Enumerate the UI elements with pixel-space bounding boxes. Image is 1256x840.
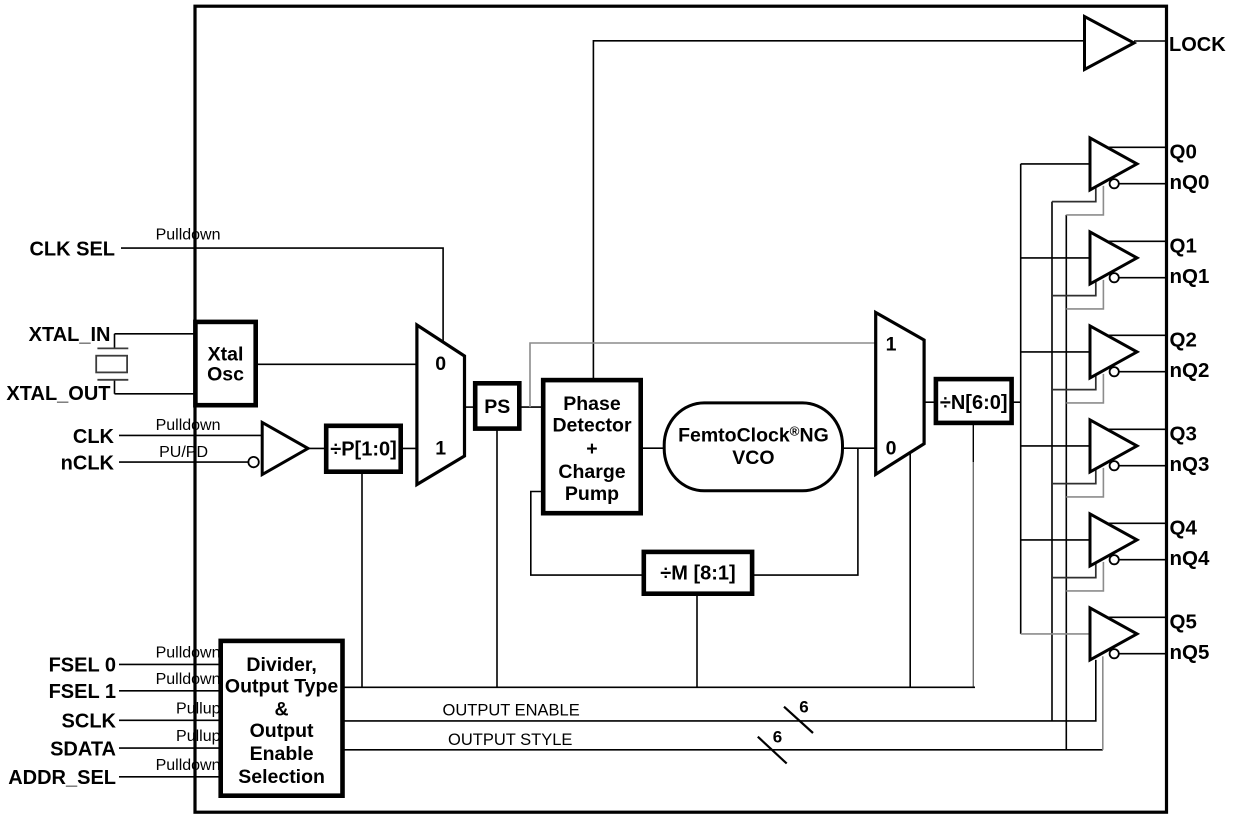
wire: phase detector output to VCO: [641, 447, 665, 449]
svg-text:Pullup: Pullup: [176, 728, 221, 745]
block: FemtoClock NG VCO: [664, 403, 842, 491]
wire (gray): PS output bypass to mux M2 input 1: [530, 343, 876, 407]
wire: divider P select from control bus: [361, 472, 363, 688]
svg-text:Charge: Charge: [558, 461, 625, 483]
wire: clock bus to buffer Q2 input: [1021, 351, 1090, 353]
svg-text:OUTPUT STYLE: OUTPUT STYLE: [448, 731, 572, 749]
svg-text:SDATA: SDATA: [50, 738, 116, 760]
svg-text:Pulldown: Pulldown: [156, 757, 221, 774]
wire: nQ5 output to pin: [1119, 653, 1165, 655]
svg-text:nQ0: nQ0: [1170, 171, 1210, 194]
inverting bubble on U1: [248, 457, 258, 467]
block: PS prescaler: [475, 383, 519, 428]
wire: output enable jog to buffer Q2: [1052, 376, 1096, 390]
wire: nQ4 output to pin: [1119, 559, 1165, 561]
svg-text:ADDR_SEL: ADDR_SEL: [8, 767, 116, 789]
wire: divider/type select bus from control block: [343, 686, 976, 688]
svg-text:Detector: Detector: [552, 415, 632, 437]
wire (gray): output style jog to buffer Q3 bubble: [1066, 468, 1103, 497]
output buffer Q1/nQ1: [1090, 232, 1137, 284]
svg-text:Q3: Q3: [1170, 422, 1197, 445]
wire: nCLK input to buffer U1 inverting in: [119, 461, 248, 463]
wire: Q1 output to pin: [1108, 240, 1165, 242]
wire (gray): output style jog to buffer Q1 bubble: [1066, 280, 1103, 309]
wire: XTAL_IN to Xtal Osc: [115, 333, 197, 335]
svg-text:Q0: Q0: [1170, 140, 1197, 163]
wire: CLK input to buffer U1: [119, 434, 262, 436]
wire: ADDR_SEL input to control block: [119, 776, 221, 778]
wire (gray): OUTPUT STYLE riser to nQ5 bubble: [1102, 656, 1104, 750]
inverting bubble nQ1: [1110, 273, 1119, 282]
LOCK output buffer U_LOCK: [1085, 17, 1135, 70]
svg-text:VCO: VCO: [732, 447, 774, 469]
main device boundary frame: [195, 6, 1167, 812]
output buffer Q2/nQ2: [1090, 326, 1137, 378]
inverting bubble nQ0: [1110, 179, 1119, 188]
mux M1 (reference select trapezoid): [417, 325, 465, 485]
wire: PS select from control bus: [496, 429, 498, 688]
block: divider N [6:0] output divider: [936, 379, 1012, 423]
svg-text:CLK SEL: CLK SEL: [29, 239, 115, 261]
wire: clock bus to buffer Q4 input: [1021, 539, 1090, 541]
svg-text:Divider,: Divider,: [246, 654, 316, 676]
svg-text:Pullup: Pullup: [176, 700, 221, 717]
wire: Q2 output to pin: [1108, 334, 1165, 336]
svg-text:XTAL_OUT: XTAL_OUT: [6, 383, 110, 405]
wire: XTAL_OUT to Xtal Osc: [115, 393, 197, 395]
crystal Y1 connection brackets: [114, 334, 116, 349]
svg-text:nQ4: nQ4: [1170, 547, 1210, 570]
crystal Y1 body: [96, 356, 127, 373]
inverting bubble nQ4: [1110, 555, 1119, 564]
svg-text:&: &: [275, 699, 289, 721]
svg-text:÷P[1:0]: ÷P[1:0]: [330, 438, 397, 460]
mux M2 (VCO bypass select trapezoid): [876, 313, 924, 475]
wire: LOCK buffer output to pin: [1134, 40, 1165, 42]
bus width slash (OUTPUT ENABLE): [784, 707, 813, 733]
output buffer Q3/nQ3: [1090, 420, 1137, 472]
svg-text:Pulldown: Pulldown: [156, 417, 221, 434]
crystal Y1 bottom plate: [97, 379, 128, 381]
wire: clock bus to buffer Q0 input: [1021, 163, 1090, 165]
svg-text:Enable: Enable: [250, 743, 314, 765]
svg-text:nCLK: nCLK: [61, 453, 115, 475]
block: Divider, Output Type & Output Enable Selection control: [221, 641, 343, 796]
wire: nQ3 output to pin: [1119, 465, 1165, 467]
wire: FSEL 1 input to control block: [119, 690, 221, 692]
wire: output enable bus vertical: [1051, 202, 1053, 721]
svg-text:SCLK: SCLK: [62, 711, 117, 733]
block: Xtal Osc oscillator: [195, 322, 255, 405]
wire: output clock bus vertical (divider N to buffers): [1020, 164, 1022, 634]
svg-text:nQ5: nQ5: [1170, 641, 1210, 664]
wire: divider N output to output bus: [1012, 401, 1021, 403]
svg-text:nQ1: nQ1: [1170, 265, 1210, 288]
wire: Q3 output to pin: [1108, 428, 1165, 430]
svg-text:Output Type: Output Type: [225, 676, 339, 698]
svg-text:1: 1: [886, 334, 897, 356]
svg-text:FemtoClock®NG: FemtoClock®NG: [678, 424, 829, 447]
inverting bubble nQ3: [1110, 461, 1119, 470]
input buffer U1 (differential clock): [262, 423, 308, 475]
svg-text:+: +: [586, 438, 597, 460]
wire: phase detector to LOCK buffer (net LOCK_INT): [593, 41, 1084, 380]
wire: divider N select from control bus: [972, 423, 974, 462]
svg-text:Output: Output: [250, 720, 314, 742]
inverting bubble nQ5: [1110, 649, 1119, 658]
svg-text:LOCK: LOCK: [1169, 34, 1226, 56]
svg-text:Q5: Q5: [1170, 610, 1197, 633]
svg-text:PS: PS: [484, 396, 510, 418]
svg-text:OUTPUT ENABLE: OUTPUT ENABLE: [443, 701, 580, 719]
wire: output enable jog to buffer Q0: [1052, 188, 1096, 202]
svg-text:Pulldown: Pulldown: [156, 227, 221, 244]
svg-text:Pulldown: Pulldown: [156, 671, 221, 688]
wire: clock bus to buffer Q1 input: [1021, 257, 1090, 259]
wire: Q5 output to pin: [1108, 616, 1165, 618]
wire: OUTPUT STYLE bus: [343, 749, 1103, 751]
svg-text:Pulldown: Pulldown: [156, 644, 221, 661]
wire (gray): output style jog to buffer Q2 bubble: [1066, 374, 1103, 403]
inverting bubble nQ2: [1110, 367, 1119, 376]
output buffer Q0/nQ0: [1090, 138, 1137, 190]
wire: mux M1 output to PS: [465, 406, 476, 408]
wire: nQ0 output to pin: [1119, 183, 1165, 185]
svg-text:Pump: Pump: [565, 483, 619, 505]
wire: mux M2 select from control bus: [909, 452, 911, 687]
svg-text:XTAL_IN: XTAL_IN: [29, 324, 111, 346]
block: divider M [8:1] feedback divider: [644, 552, 752, 594]
wire: mux M2 output to divider N: [924, 401, 936, 403]
svg-text:Q1: Q1: [1170, 234, 1197, 257]
svg-text:FSEL 1: FSEL 1: [49, 681, 116, 703]
wire: feedback from divider M to phase detector: [531, 492, 644, 576]
svg-text:nQ3: nQ3: [1170, 453, 1210, 476]
wire: Q4 output to pin: [1108, 522, 1165, 524]
wire: output style bus vertical: [1065, 215, 1067, 750]
wire: VCO output feedback tap down to divider M: [752, 448, 858, 575]
svg-text:÷N[6:0]: ÷N[6:0]: [940, 392, 1008, 414]
bus width slash (OUTPUT STYLE): [758, 737, 787, 764]
svg-text:FSEL 0: FSEL 0: [49, 655, 116, 677]
wire: OUTPUT ENABLE bus: [343, 660, 1096, 721]
svg-text:6: 6: [773, 728, 782, 747]
wire: output enable jog to buffer Q3: [1052, 470, 1096, 484]
svg-text:PU/PD: PU/PD: [159, 444, 208, 461]
wire: U1 output to divider P: [308, 447, 326, 449]
wire (gray): output style jog to buffer Q0 bubble: [1066, 186, 1103, 215]
svg-text:Osc: Osc: [207, 364, 244, 386]
svg-text:Xtal: Xtal: [208, 343, 244, 365]
wire: clock bus to buffer Q5 input: [1021, 633, 1090, 635]
wire: PS output to phase detector: [519, 406, 543, 408]
crystal Y1 top plate: [97, 347, 128, 349]
output buffer Q4/nQ4: [1090, 514, 1137, 566]
svg-text:CLK: CLK: [73, 426, 115, 448]
svg-text:nQ2: nQ2: [1170, 359, 1210, 382]
output buffer Q5/nQ5: [1090, 608, 1137, 660]
svg-text:0: 0: [886, 438, 897, 460]
wire: SCLK input to control block: [119, 719, 221, 721]
wire (gray): output style jog to buffer Q4 bubble: [1066, 562, 1103, 591]
wire: FSEL 0 input to control block: [119, 663, 221, 665]
wire: CLK_SEL input to mux M1 select: [121, 248, 443, 342]
svg-text:Phase: Phase: [563, 393, 621, 415]
svg-text:÷M [8:1]: ÷M [8:1]: [660, 563, 735, 585]
wire: VCO output to mux M2 input 0: [843, 447, 876, 449]
wire: clock bus to buffer Q3 input: [1021, 445, 1090, 447]
block: divider P [1:0]: [326, 426, 401, 472]
block: Phase Detector + Charge Pump: [543, 380, 641, 513]
wire: output enable jog to buffer Q1: [1052, 282, 1096, 296]
wire: divider M select from control bus: [696, 594, 698, 688]
svg-text:Q2: Q2: [1170, 328, 1197, 351]
svg-text:Selection: Selection: [238, 766, 325, 788]
wire: SDATA input to control block: [119, 747, 221, 749]
wire: nQ2 output to pin: [1119, 371, 1165, 373]
wire: nQ1 output to pin: [1119, 277, 1165, 279]
wire: Xtal Osc output to mux M1 input 0: [256, 363, 417, 365]
wire: Q0 output to pin: [1108, 146, 1165, 148]
svg-text:Q4: Q4: [1170, 516, 1198, 539]
wire: divider P output to mux M1 input 1: [401, 447, 417, 449]
svg-text:0: 0: [435, 353, 446, 375]
svg-text:1: 1: [435, 438, 446, 460]
wire: output enable jog to buffer Q4: [1052, 564, 1096, 578]
svg-text:6: 6: [799, 698, 808, 717]
